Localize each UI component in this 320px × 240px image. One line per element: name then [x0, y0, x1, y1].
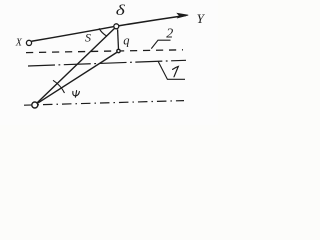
label psi: [73, 91, 80, 98]
svg-text:S: S: [85, 30, 91, 44]
node on dashed line: [117, 49, 120, 52]
dashed trajectory line 2 (horizontal): [26, 50, 183, 53]
axis line from X through Q to Y arrow: [32, 15, 187, 41]
svg-text:δ: δ: [116, 3, 125, 19]
vertical offset segment q: Q down to node: [117, 29, 120, 49]
point circle Q: [114, 24, 119, 29]
svg-text:X: X: [15, 37, 23, 48]
link line A: O to Q: [37, 29, 114, 103]
arrowhead of Y axis: [177, 13, 188, 17]
point circle O: [32, 102, 38, 108]
svg-text:q: q: [123, 34, 129, 48]
bottom dash-dot center line: [24, 101, 184, 106]
svg-text:2: 2: [166, 26, 173, 41]
point circle X: [26, 40, 31, 45]
link line B: O to node: [38, 52, 117, 103]
leader line for label 2: [151, 40, 170, 48]
dash-dot trajectory line 1 (horizontal): [28, 60, 186, 66]
leader line for label 1: [158, 62, 185, 80]
label 1: [173, 66, 179, 76]
angle arc psi at O: [53, 80, 65, 93]
angle arc at Q: [99, 28, 107, 36]
